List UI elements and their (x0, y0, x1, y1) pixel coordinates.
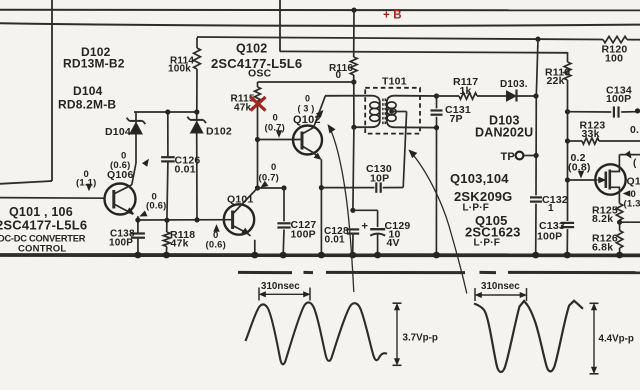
svg-text:( 3 ): ( 3 ) (298, 104, 315, 114)
svg-text:RD13M-B2: RD13M-B2 (63, 57, 125, 71)
svg-text:D102: D102 (206, 126, 232, 138)
svg-text:Q101: Q101 (227, 194, 254, 206)
svg-text:RD8.2M-B: RD8.2M-B (58, 98, 116, 112)
svg-text:8.2k: 8.2k (592, 213, 613, 225)
svg-text:(0.7): (0.7) (259, 173, 280, 184)
svg-text:10P: 10P (370, 173, 389, 185)
svg-text:310nsec: 310nsec (261, 281, 300, 292)
svg-text:33k: 33k (582, 128, 600, 140)
svg-text:+: + (362, 221, 369, 233)
svg-text:100P: 100P (606, 93, 631, 105)
svg-text:100: 100 (605, 53, 623, 65)
svg-text:D104: D104 (105, 126, 131, 138)
svg-text:310nsec: 310nsec (481, 281, 520, 292)
svg-text:1: 1 (548, 203, 554, 214)
svg-text:7P: 7P (450, 113, 463, 125)
svg-text:0: 0 (271, 162, 276, 173)
svg-text:100P: 100P (109, 238, 133, 249)
svg-text:(0.7): (0.7) (265, 123, 286, 134)
svg-text:Q102: Q102 (293, 114, 321, 126)
svg-text:CONTROL: CONTROL (18, 244, 66, 255)
svg-text:0.01: 0.01 (325, 235, 346, 246)
svg-text:100k: 100k (168, 64, 191, 75)
svg-text:Q103,104: Q103,104 (450, 171, 509, 186)
svg-text:(1.3: (1.3 (624, 199, 640, 210)
svg-text:(0.8): (0.8) (568, 162, 591, 174)
svg-text:(0.6): (0.6) (206, 240, 227, 251)
svg-text:3.7Vp-p: 3.7Vp-p (403, 333, 438, 344)
svg-text:0.01: 0.01 (175, 164, 196, 176)
svg-text:6.8k: 6.8k (592, 242, 613, 254)
svg-text:D103.: D103. (500, 79, 528, 90)
svg-text:TP: TP (501, 151, 515, 163)
svg-text:DC-DC CONVERTER: DC-DC CONVERTER (0, 234, 86, 244)
svg-text:+ B: + B (383, 10, 402, 22)
svg-text:0: 0 (305, 94, 310, 104)
svg-text:100P: 100P (291, 229, 316, 241)
svg-text:DAN202U: DAN202U (475, 126, 533, 140)
svg-text:(0.6): (0.6) (146, 201, 167, 212)
svg-text:2SC4177-L5L6: 2SC4177-L5L6 (0, 218, 87, 233)
svg-text:D104: D104 (73, 84, 103, 98)
svg-text:100P: 100P (537, 231, 562, 243)
svg-text:Q102: Q102 (236, 42, 267, 56)
svg-text:4.4Vp-p: 4.4Vp-p (599, 334, 634, 345)
svg-text:L·P·F: L·P·F (474, 238, 501, 249)
svg-text:0.: 0. (630, 124, 639, 136)
svg-text:47k: 47k (171, 238, 189, 250)
svg-text:T101: T101 (382, 76, 407, 88)
svg-text:(1.1): (1.1) (76, 178, 97, 189)
svg-text:OSC: OSC (248, 68, 272, 80)
svg-text:Q106: Q106 (107, 169, 134, 181)
svg-text:C132: C132 (542, 194, 568, 206)
svg-text:0: 0 (336, 70, 342, 81)
svg-text:4V: 4V (387, 237, 400, 249)
svg-text:Q10: Q10 (627, 176, 640, 188)
svg-text:47k: 47k (234, 103, 252, 114)
svg-text:L·P·F: L·P·F (463, 203, 490, 214)
svg-text:1k: 1k (460, 85, 472, 97)
svg-text:(: ( (633, 158, 637, 169)
svg-text:22k: 22k (547, 75, 565, 87)
